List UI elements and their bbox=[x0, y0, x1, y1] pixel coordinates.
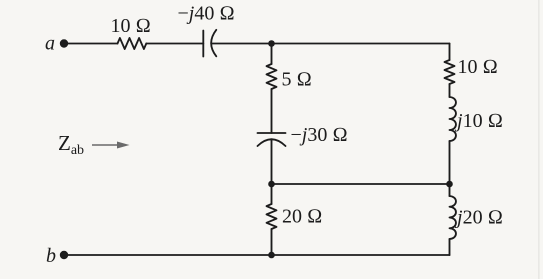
node mid right bbox=[446, 181, 453, 188]
wire right node to L2 bbox=[449, 184, 451, 196]
terminal a dot bbox=[60, 39, 68, 47]
wire R3 to bottom rail bbox=[271, 229, 273, 255]
node bottom middle bbox=[268, 252, 275, 259]
svg-text:b: b bbox=[46, 245, 56, 267]
wire top node down to R2 bbox=[271, 44, 273, 65]
wire R1 to C1 bbox=[146, 43, 203, 45]
wire bottom rail bbox=[67, 254, 450, 256]
wire C1 to top-right corner bbox=[211, 43, 449, 45]
svg-text:Zab: Zab bbox=[58, 131, 84, 158]
wire a to R1 bbox=[67, 43, 118, 45]
wire R2 to C2 bbox=[271, 89, 273, 133]
wire right branch top bbox=[449, 44, 451, 61]
wire R4 to L1 bbox=[449, 84, 451, 97]
wire mid rail bbox=[272, 183, 450, 185]
resistor R 10ohm right bbox=[445, 60, 455, 84]
wire L2 to bottom-right corner bbox=[449, 239, 451, 255]
capacitor -j40 plate left bbox=[202, 31, 204, 57]
wire C2 to mid node bbox=[271, 140, 273, 184]
wire L1 to right node bbox=[449, 141, 451, 184]
wire mid node to R3 bbox=[271, 184, 273, 204]
svg-text:j10 Ω: j10 Ω bbox=[454, 110, 503, 132]
svg-text:a: a bbox=[45, 33, 55, 55]
resistor R 5ohm bbox=[267, 64, 277, 89]
svg-text:j20 Ω: j20 Ω bbox=[454, 207, 503, 229]
svg-text:10 Ω: 10 Ω bbox=[458, 56, 498, 78]
node top middle bbox=[268, 40, 275, 47]
capacitor -j30 plate curved bbox=[258, 139, 286, 146]
resistor R 20ohm bbox=[267, 204, 277, 229]
svg-text:−j30 Ω: −j30 Ω bbox=[291, 124, 348, 146]
capacitor -j30 plate straight bbox=[258, 132, 286, 134]
svg-text:10 Ω: 10 Ω bbox=[111, 15, 151, 37]
inductor j10 bbox=[450, 97, 456, 141]
terminal b dot bbox=[60, 251, 68, 259]
inductor j20 bbox=[450, 196, 456, 239]
svg-text:−j40 Ω: −j40 Ω bbox=[178, 3, 235, 25]
arrow Zab bbox=[92, 142, 130, 149]
node mid middle bbox=[268, 181, 275, 188]
capacitor -j40 plate curved bbox=[211, 30, 216, 57]
svg-text:20 Ω: 20 Ω bbox=[282, 206, 322, 228]
resistor R 10ohm top bbox=[118, 38, 147, 49]
svg-text:5 Ω: 5 Ω bbox=[282, 69, 312, 91]
